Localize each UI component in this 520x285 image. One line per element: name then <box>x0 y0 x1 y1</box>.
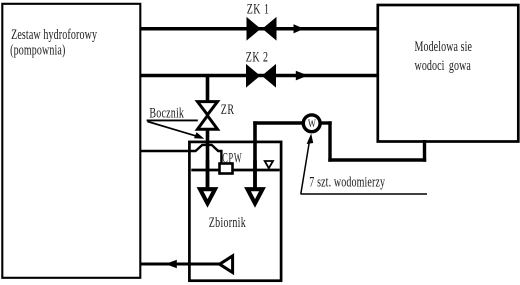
svg-text:wodoci gowa: wodoci gowa <box>415 57 472 73</box>
svg-text:Zestaw hydroforowy: Zestaw hydroforowy <box>11 26 97 42</box>
svg-text:ZR: ZR <box>221 101 235 117</box>
svg-text:ZK 2: ZK 2 <box>246 49 269 65</box>
svg-text:Bocznik: Bocznik <box>149 105 184 121</box>
svg-text:W: W <box>308 118 316 131</box>
svg-text:Zbiornik: Zbiornik <box>209 214 247 230</box>
svg-text:Modelowa sie: Modelowa sie <box>415 38 473 54</box>
svg-text:(pompownia): (pompownia) <box>10 42 65 58</box>
svg-text:CPW: CPW <box>222 149 242 166</box>
svg-text:ZK 1: ZK 1 <box>247 1 270 17</box>
svg-text:7 szt. wodomierzy: 7 szt. wodomierzy <box>309 174 385 190</box>
